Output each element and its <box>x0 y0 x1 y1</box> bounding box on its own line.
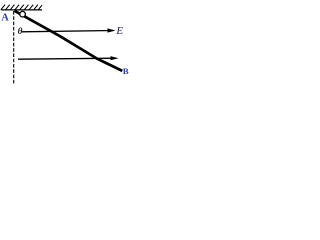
svg-text:B: B <box>123 66 129 76</box>
svg-text:θ: θ <box>18 27 23 37</box>
svg-text:A: A <box>1 12 9 23</box>
svg-text:E: E <box>115 25 123 37</box>
